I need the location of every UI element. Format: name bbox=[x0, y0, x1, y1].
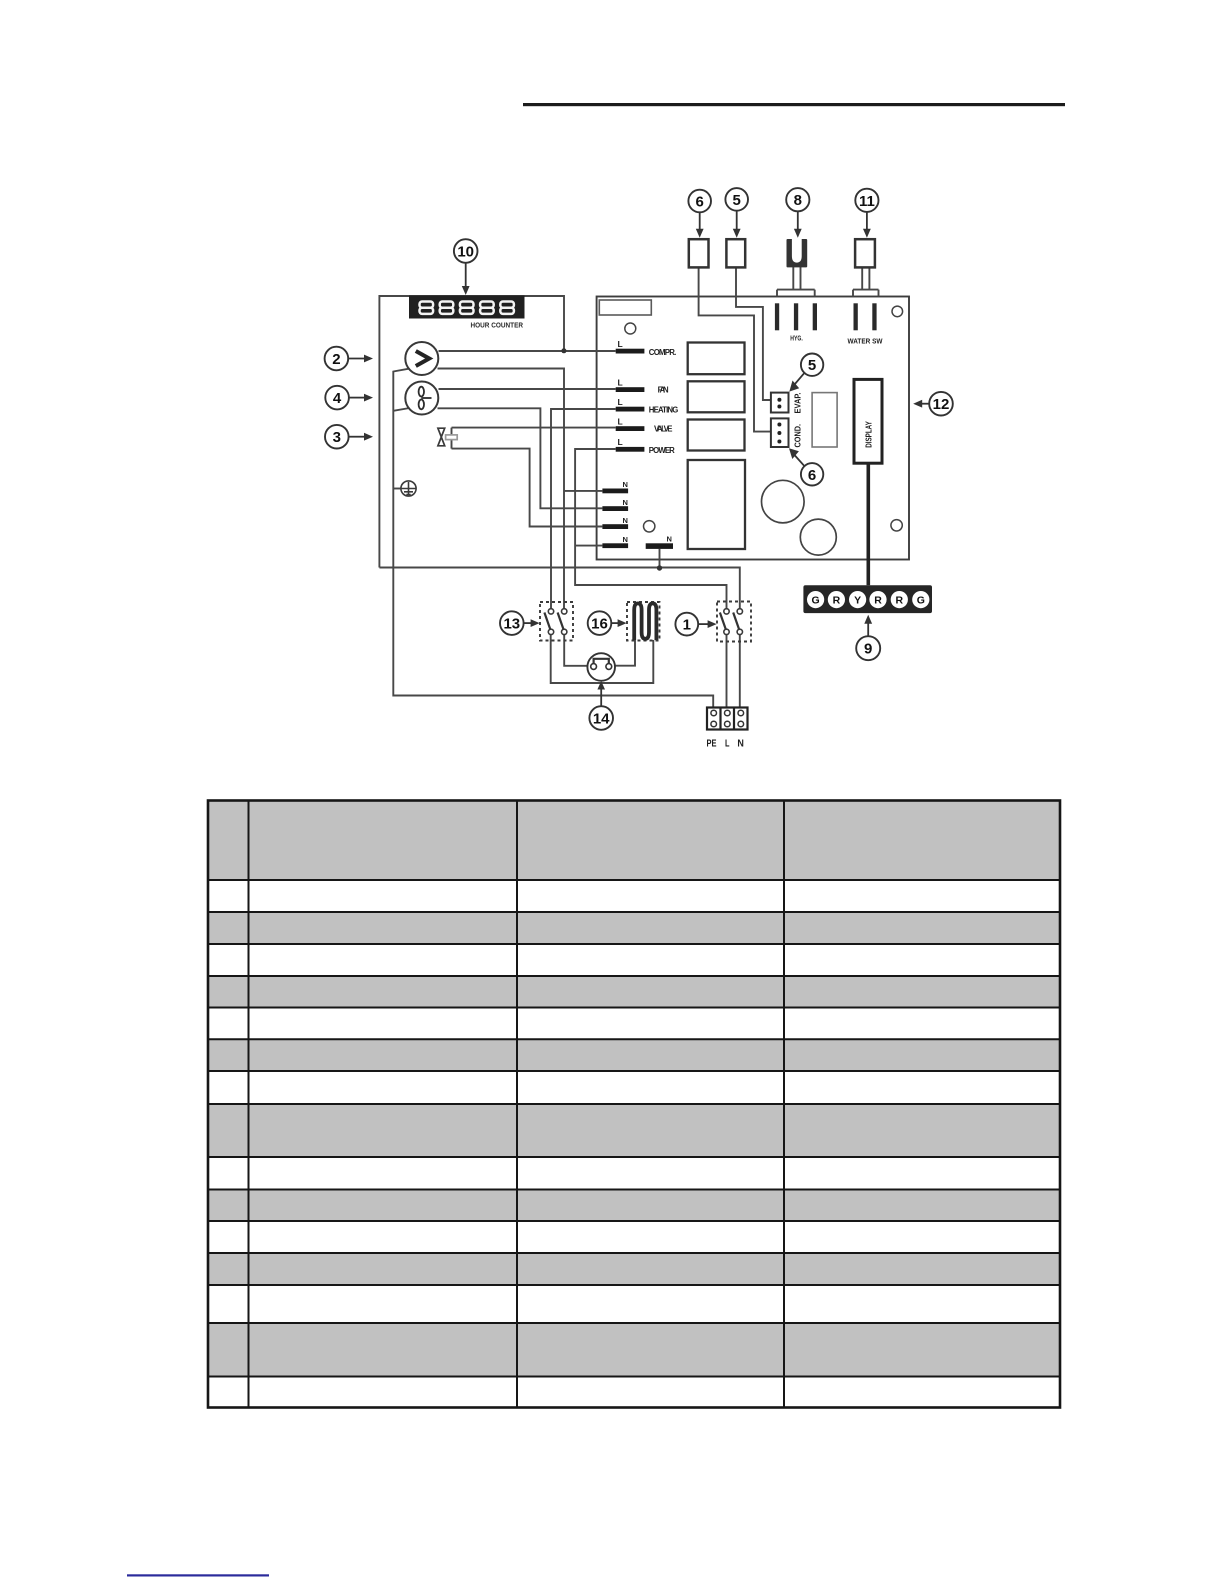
svg-text:L: L bbox=[618, 397, 623, 407]
svg-text:1: 1 bbox=[683, 617, 691, 634]
svg-text:N: N bbox=[623, 516, 628, 525]
svg-text:FAN: FAN bbox=[658, 386, 669, 395]
svg-text:9: 9 bbox=[864, 641, 872, 658]
svg-text:14: 14 bbox=[593, 711, 610, 728]
svg-text:N: N bbox=[623, 480, 628, 489]
svg-text:Y: Y bbox=[854, 594, 861, 606]
svg-text:G: G bbox=[917, 594, 925, 606]
svg-text:HYG.: HYG. bbox=[790, 336, 803, 343]
svg-text:11: 11 bbox=[859, 193, 875, 210]
svg-text:L: L bbox=[618, 378, 623, 388]
svg-text:DISPLAY: DISPLAY bbox=[865, 421, 874, 448]
svg-text:POWER: POWER bbox=[649, 446, 675, 455]
svg-text:5: 5 bbox=[733, 192, 741, 209]
svg-text:EVAP.: EVAP. bbox=[794, 393, 803, 414]
svg-text:COND.: COND. bbox=[794, 424, 803, 448]
svg-text:WATER SW: WATER SW bbox=[848, 339, 883, 346]
svg-text:N: N bbox=[623, 498, 628, 507]
svg-text:N: N bbox=[623, 535, 628, 544]
svg-text:R: R bbox=[874, 594, 882, 606]
svg-text:HEATING: HEATING bbox=[649, 406, 679, 415]
svg-text:VALVE: VALVE bbox=[654, 425, 673, 434]
svg-text:2: 2 bbox=[332, 351, 340, 368]
svg-text:3: 3 bbox=[333, 429, 341, 446]
svg-text:12: 12 bbox=[933, 396, 950, 413]
svg-text:R: R bbox=[896, 594, 904, 606]
svg-text:L: L bbox=[618, 339, 623, 349]
svg-text:13: 13 bbox=[503, 616, 520, 633]
svg-text:L: L bbox=[618, 437, 623, 447]
svg-text:N: N bbox=[737, 738, 744, 750]
svg-text:R: R bbox=[833, 594, 841, 606]
svg-text:6: 6 bbox=[696, 194, 704, 211]
svg-text:4: 4 bbox=[333, 390, 342, 407]
svg-text:COMPR.: COMPR. bbox=[649, 348, 677, 357]
svg-text:PE: PE bbox=[707, 738, 717, 750]
svg-text:L: L bbox=[725, 738, 730, 750]
svg-text:16: 16 bbox=[591, 616, 608, 633]
svg-text:6: 6 bbox=[808, 467, 816, 484]
svg-text:N: N bbox=[667, 534, 672, 543]
svg-text:5: 5 bbox=[808, 357, 816, 374]
svg-text:L: L bbox=[618, 417, 623, 427]
svg-text:G: G bbox=[812, 594, 820, 606]
svg-text:10: 10 bbox=[457, 244, 474, 261]
svg-text:8: 8 bbox=[794, 192, 802, 209]
svg-text:HOUR COUNTER: HOUR COUNTER bbox=[471, 321, 524, 330]
